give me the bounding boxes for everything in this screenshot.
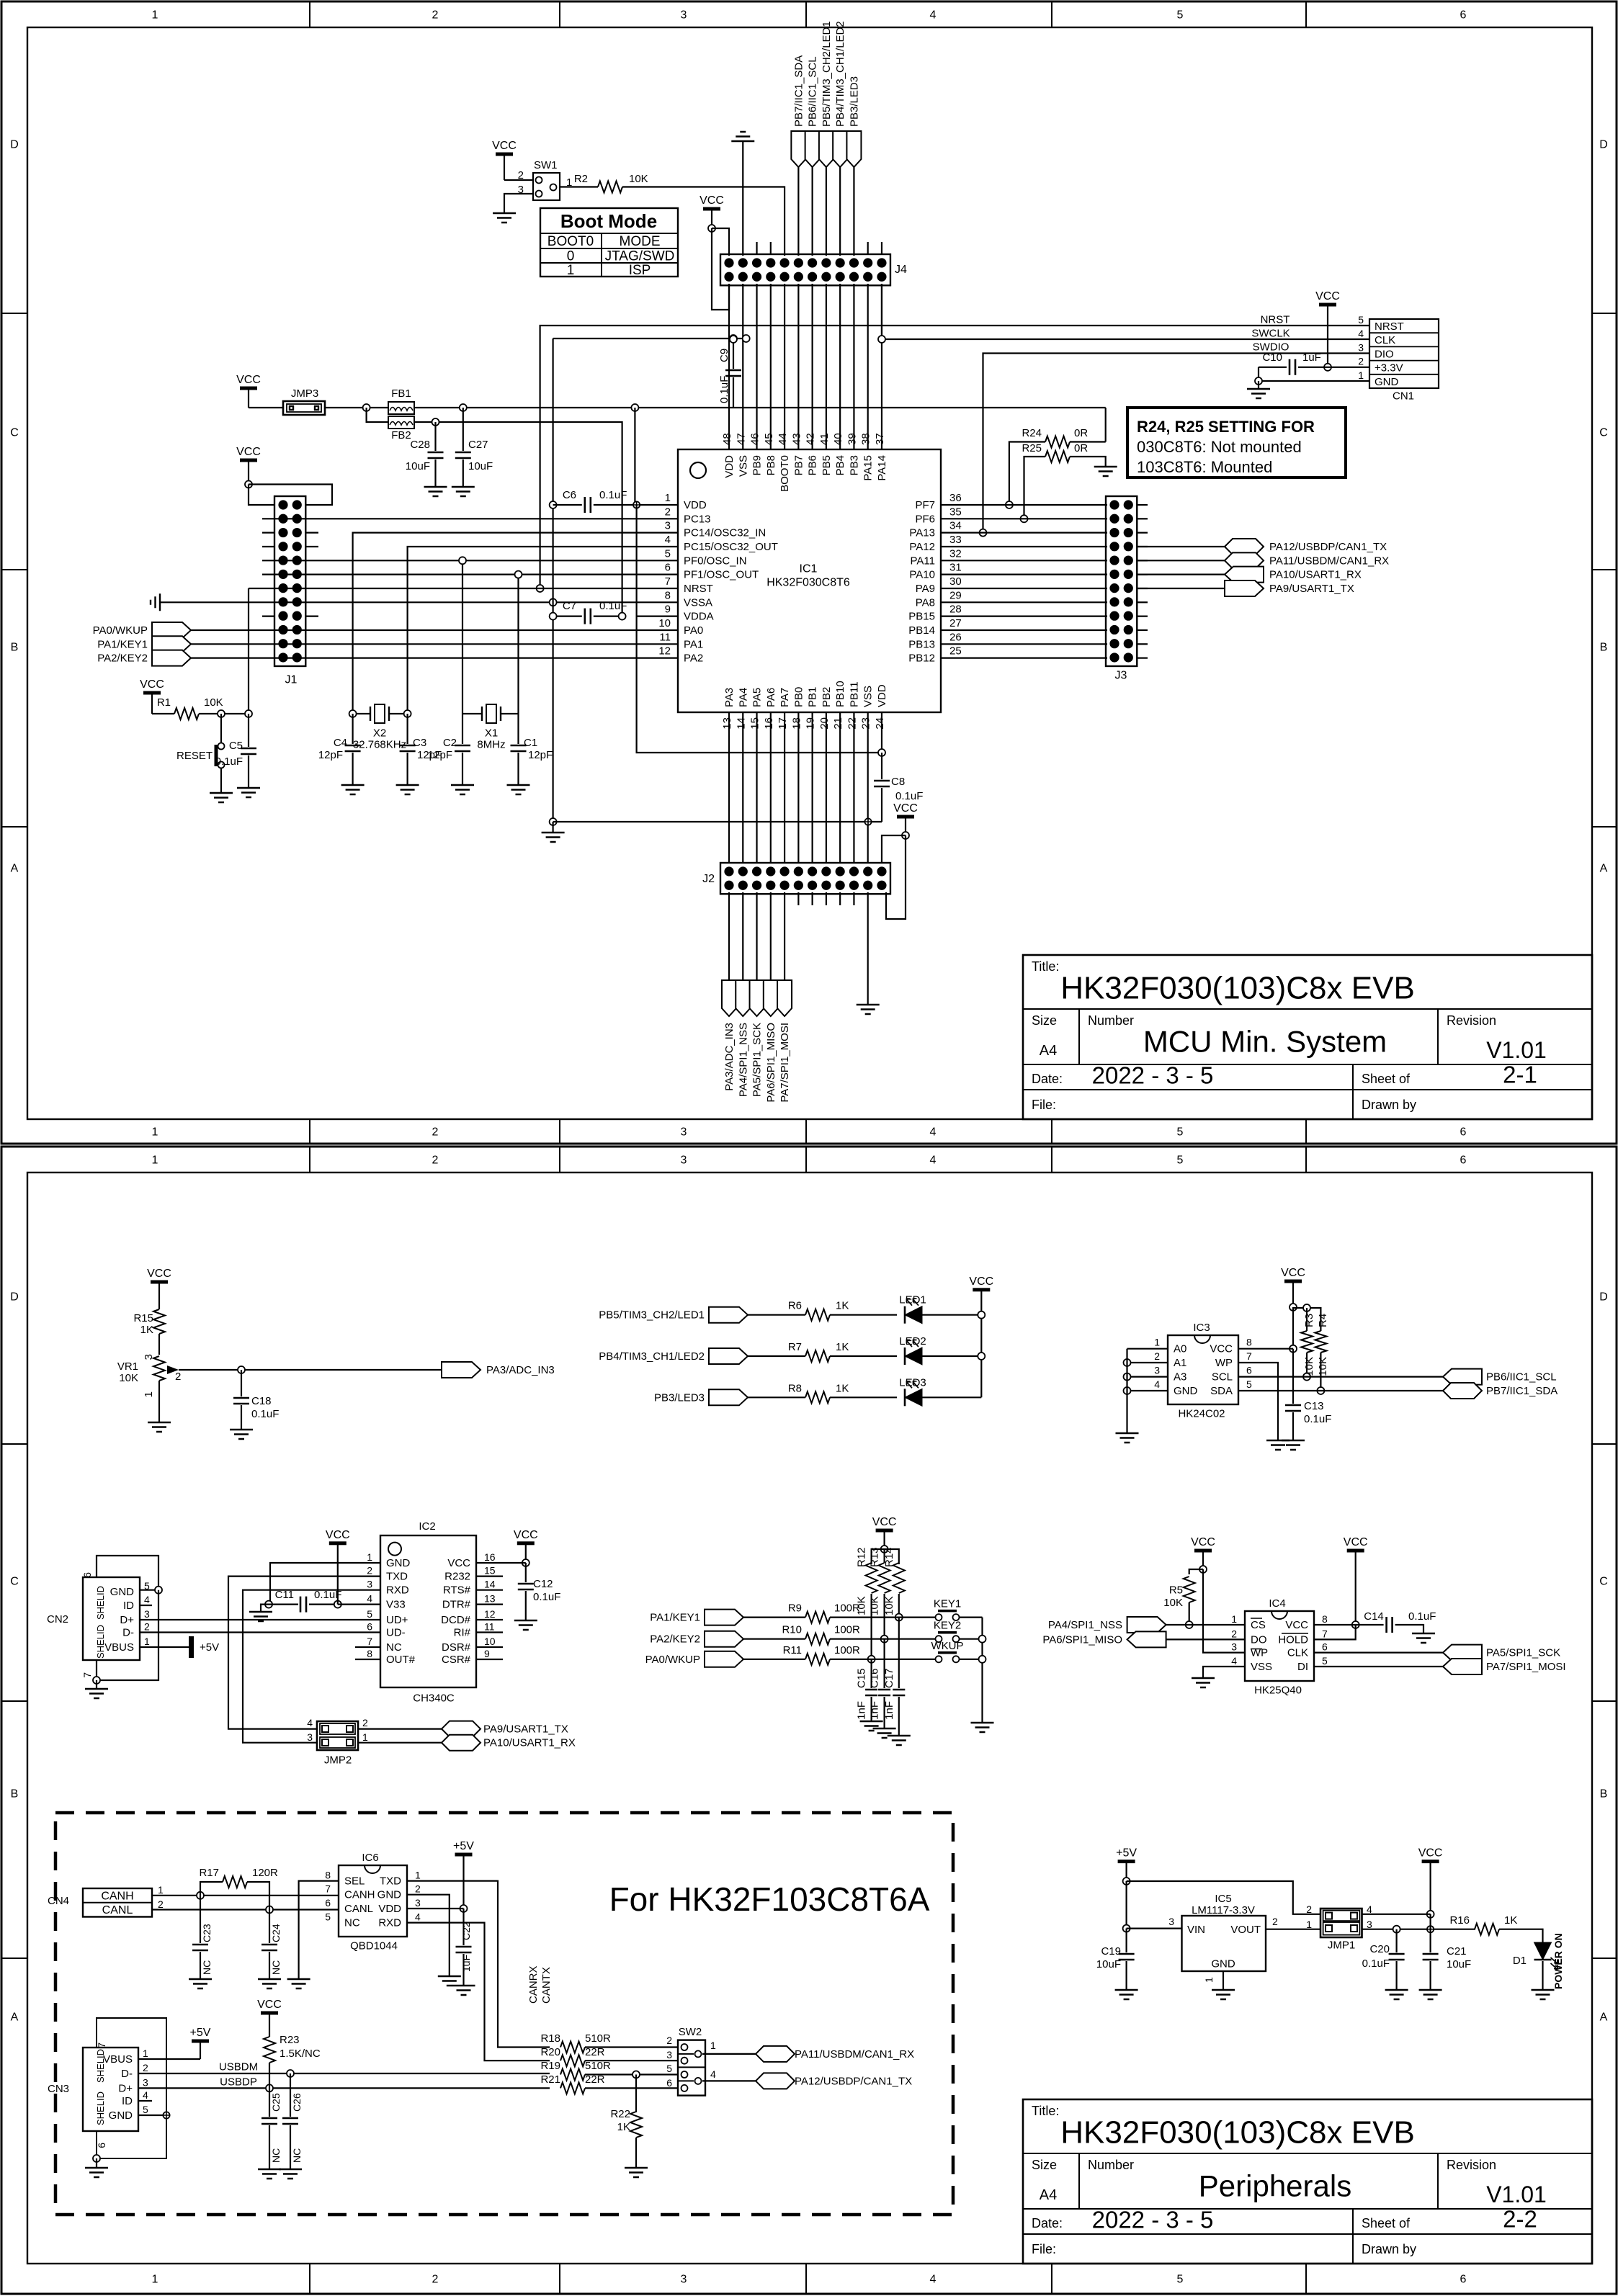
svg-text:44: 44 bbox=[777, 433, 789, 445]
svg-text:C16: C16 bbox=[869, 1668, 881, 1688]
svg-text:POWER ON: POWER ON bbox=[1552, 1933, 1564, 1989]
wire IC6 SEL to ground bbox=[299, 1881, 339, 1979]
svg-text:File:: File: bbox=[1032, 2242, 1056, 2256]
power flag VCC (IC3) bbox=[1284, 1280, 1302, 1283]
svg-text:3: 3 bbox=[1154, 1365, 1160, 1376]
wire V33 to IC2 bbox=[338, 1604, 380, 1605]
svg-text:C23: C23 bbox=[201, 1924, 213, 1942]
IC IC4 HK25Q40 bbox=[1245, 1611, 1314, 1681]
wire IC1 pin 30 to J3 bbox=[960, 588, 1107, 589]
jumper JMP2 bbox=[317, 1721, 358, 1750]
svg-text:39: 39 bbox=[846, 433, 858, 445]
power flag VCC (R15) bbox=[151, 1281, 168, 1284]
wire IC1 pin 23 to J2 bbox=[867, 712, 869, 863]
net flag PB7/IIC1_SDA bbox=[1443, 1383, 1482, 1399]
IC IC5 LM1117-3.3V bbox=[1182, 1916, 1266, 1971]
svg-text:PA11/USBDM/CAN1_RX: PA11/USBDM/CAN1_RX bbox=[795, 2048, 914, 2060]
svg-text:GND: GND bbox=[110, 1586, 135, 1598]
svg-text:R6: R6 bbox=[788, 1300, 802, 1312]
svg-text:3: 3 bbox=[143, 2076, 148, 2088]
svg-text:UD+: UD+ bbox=[386, 1614, 408, 1626]
wire VCC to VDD pin1 bbox=[634, 408, 635, 505]
wire R9 to key KEY1 bbox=[830, 1617, 939, 1618]
svg-text:3: 3 bbox=[681, 2274, 687, 2286]
svg-text:20: 20 bbox=[818, 717, 831, 730]
svg-text:1: 1 bbox=[1154, 1337, 1160, 1348]
svg-text:R22: R22 bbox=[610, 2108, 630, 2120]
svg-text:1: 1 bbox=[710, 2040, 716, 2051]
svg-text:2: 2 bbox=[175, 1371, 181, 1383]
wire IC1 pin 22 to J2 bbox=[853, 712, 854, 863]
wire PA0 to IC1 bbox=[191, 629, 636, 631]
wire IC6 RXD to R20 row (CANRX) bbox=[407, 1923, 550, 2061]
ground (C3) bbox=[396, 785, 419, 794]
svg-text:A: A bbox=[11, 863, 19, 875]
wire J2 col1 to flag bbox=[728, 892, 730, 980]
svg-text:PB11: PB11 bbox=[848, 681, 860, 707]
wire J1 row6 to PF1 bbox=[262, 574, 636, 575]
svg-text:30: 30 bbox=[949, 575, 962, 588]
resistor R20 22R bbox=[560, 2055, 585, 2066]
svg-text:IC6: IC6 bbox=[362, 1852, 378, 1864]
ferrite bead FB2 bbox=[388, 416, 414, 429]
svg-text:VCC: VCC bbox=[872, 1516, 897, 1528]
svg-text:PB0: PB0 bbox=[792, 687, 805, 707]
header J4 (2x12) bbox=[720, 254, 890, 285]
ground (IC3) bbox=[1116, 1433, 1139, 1443]
wire JMP3 to FB1 bbox=[325, 407, 388, 408]
wire USBDP net bbox=[138, 2087, 550, 2089]
svg-text:2: 2 bbox=[367, 1565, 372, 1577]
svg-text:PB7/IIC1_SDA: PB7/IIC1_SDA bbox=[792, 55, 805, 127]
svg-text:6: 6 bbox=[96, 2143, 107, 2148]
svg-text:14: 14 bbox=[735, 717, 747, 730]
wire IC4 VSS to ground bbox=[1203, 1667, 1245, 1678]
svg-text:R24, R25 SETTING FOR: R24, R25 SETTING FOR bbox=[1137, 418, 1315, 436]
power flag +5V (CN3) bbox=[192, 2040, 209, 2043]
svg-text:1K: 1K bbox=[1504, 1914, 1517, 1927]
svg-text:1: 1 bbox=[152, 2274, 158, 2286]
svg-text:7: 7 bbox=[81, 1672, 93, 1678]
IC1 pin 12 PA2 bbox=[636, 658, 678, 659]
sheet border frame bbox=[1, 1147, 1617, 2294]
svg-text:PA11: PA11 bbox=[911, 555, 935, 567]
wire IC1 pin 31 to J3 bbox=[960, 574, 1107, 575]
svg-text:C14: C14 bbox=[1364, 1610, 1384, 1623]
wire VCC to J2 col12 bottom bbox=[886, 835, 906, 919]
svg-text:2022 - 3 - 5: 2022 - 3 - 5 bbox=[1092, 1062, 1214, 1089]
svg-text:CANL: CANL bbox=[344, 1903, 373, 1915]
svg-text:PB2: PB2 bbox=[821, 687, 833, 707]
svg-text:PF6: PF6 bbox=[915, 513, 935, 525]
svg-text:A1: A1 bbox=[1174, 1357, 1186, 1369]
svg-text:26: 26 bbox=[949, 631, 962, 643]
svg-text:PA5/SPI1_SCK: PA5/SPI1_SCK bbox=[1486, 1647, 1560, 1659]
svg-text:HK32F030C8T6: HK32F030C8T6 bbox=[766, 577, 850, 589]
svg-text:VCC: VCC bbox=[236, 446, 261, 458]
capacitor C27 10uF bbox=[462, 408, 464, 451]
svg-text:VBUS: VBUS bbox=[103, 2053, 133, 2066]
svg-text:PB3/LED3: PB3/LED3 bbox=[848, 76, 860, 127]
svg-text:C12: C12 bbox=[533, 1578, 553, 1590]
IC U1 HK32F030C8T6 (IC1) bbox=[678, 449, 941, 712]
IC1 pin 11 PA1 bbox=[636, 643, 678, 645]
wire IC1 pin 33 to J3 bbox=[960, 546, 1107, 547]
wire R11 to key WKUP bbox=[830, 1659, 939, 1660]
power flag VCC (J1) bbox=[240, 459, 257, 462]
svg-text:33: 33 bbox=[949, 534, 962, 546]
svg-text:4: 4 bbox=[1358, 328, 1364, 339]
net flag PA0/WKUP bbox=[705, 1651, 743, 1667]
svg-text:3: 3 bbox=[1231, 1641, 1237, 1653]
svg-text:VCC: VCC bbox=[236, 374, 261, 386]
svg-text:C8: C8 bbox=[891, 776, 905, 788]
svg-text:Date:: Date: bbox=[1032, 1072, 1063, 1086]
svg-text:PB15: PB15 bbox=[908, 611, 935, 623]
wire +5V to VIN bbox=[1125, 1881, 1127, 1929]
svg-text:13: 13 bbox=[484, 1593, 496, 1605]
crystal X1 8MHz bbox=[462, 713, 482, 714]
svg-text:17: 17 bbox=[777, 717, 789, 730]
wire VOUT to JMP1 pin1 bbox=[1266, 1929, 1320, 1930]
svg-text:7: 7 bbox=[665, 575, 671, 588]
svg-text:6: 6 bbox=[1322, 1641, 1328, 1653]
svg-text:10K: 10K bbox=[1317, 1357, 1329, 1376]
svg-text:PA12/USBDP/CAN1_TX: PA12/USBDP/CAN1_TX bbox=[795, 2075, 912, 2087]
resistor R25 0R bbox=[1045, 451, 1070, 462]
power flag VCC (keys) bbox=[876, 1529, 893, 1533]
wire IC4 CLK to flag bbox=[1314, 1652, 1443, 1654]
wire SW1 pin3 to ground bbox=[504, 194, 533, 213]
wire J3 row2 stub right bbox=[1137, 518, 1148, 519]
svg-text:D+: D+ bbox=[118, 2082, 133, 2094]
wire NRST down to reset circuit bbox=[248, 588, 249, 714]
svg-text:HK32F030(103)C8x EVB: HK32F030(103)C8x EVB bbox=[1060, 970, 1415, 1005]
wire IC2 GND bbox=[270, 1563, 380, 1605]
svg-text:MODE: MODE bbox=[620, 234, 661, 249]
svg-text:NC: NC bbox=[270, 2148, 282, 2163]
wire CANH bbox=[152, 1895, 339, 1896]
svg-text:5: 5 bbox=[665, 547, 671, 560]
net flag PB6/IIC1_SCL bbox=[1443, 1369, 1482, 1385]
svg-text:B: B bbox=[11, 1788, 19, 1801]
resistor R6 1K bbox=[748, 1314, 805, 1316]
svg-text:8: 8 bbox=[325, 1870, 331, 1881]
IC1 pin 2 PC13 bbox=[636, 518, 678, 519]
svg-text:X1: X1 bbox=[485, 727, 498, 739]
wire IC1 pin 26 to J3 bbox=[960, 643, 1107, 645]
svg-text:PA0/WKUP: PA0/WKUP bbox=[645, 1654, 700, 1666]
svg-text:FB2: FB2 bbox=[391, 429, 411, 441]
svg-text:0.1uF: 0.1uF bbox=[895, 790, 923, 802]
wire IC2 RXD to JMP2 bbox=[243, 1590, 380, 1743]
wire SW2 common4 to flag bbox=[702, 2080, 756, 2081]
svg-text:0.1uF: 0.1uF bbox=[718, 376, 730, 403]
svg-text:PA2: PA2 bbox=[684, 653, 703, 665]
svg-text:PA12: PA12 bbox=[909, 541, 935, 553]
connector CN4 bbox=[83, 1888, 152, 1917]
wire PF1 to X1 bbox=[517, 575, 519, 714]
svg-text:PB6/IIC1_SCL: PB6/IIC1_SCL bbox=[807, 56, 819, 127]
svg-text:7: 7 bbox=[96, 2042, 107, 2048]
svg-text:SW2: SW2 bbox=[679, 2026, 702, 2038]
resistor R24 0R bbox=[1045, 436, 1070, 448]
wire D+ to UD+ bbox=[140, 1619, 380, 1620]
switch SW2 bbox=[678, 2040, 705, 2096]
wire keys to ground bbox=[981, 1618, 983, 1723]
svg-text:510R: 510R bbox=[585, 2060, 611, 2072]
svg-text:10: 10 bbox=[658, 617, 671, 629]
power flag VCC (IC4) bbox=[1347, 1549, 1364, 1553]
svg-text:3: 3 bbox=[1358, 341, 1364, 353]
svg-text:7: 7 bbox=[325, 1883, 331, 1895]
wire C10 to GND bbox=[1259, 367, 1369, 381]
net flag PA6/SPI1_MISO bbox=[764, 980, 778, 1016]
ground (CN3) bbox=[93, 2155, 100, 2162]
ground (C20) bbox=[1385, 1990, 1408, 1999]
svg-text:R4: R4 bbox=[1317, 1314, 1329, 1327]
svg-text:Title:: Title: bbox=[1032, 2104, 1059, 2118]
svg-text:CN2: CN2 bbox=[47, 1613, 68, 1625]
svg-text:D: D bbox=[1599, 1291, 1608, 1304]
svg-text:VCC: VCC bbox=[1281, 1267, 1305, 1279]
svg-text:120R: 120R bbox=[252, 1867, 278, 1879]
svg-text:C10: C10 bbox=[1262, 351, 1282, 364]
IC1 pin 9 VDDA bbox=[636, 616, 678, 617]
net flag PA10/USART1_RX bbox=[442, 1735, 481, 1751]
title block bbox=[1023, 955, 1592, 1119]
svg-text:10: 10 bbox=[484, 1636, 496, 1647]
wire flag to J4 bbox=[853, 167, 854, 256]
net flag PB4/TIM3_CH1/LED2 bbox=[709, 1348, 748, 1364]
svg-text:A4: A4 bbox=[1040, 1043, 1057, 1059]
svg-text:Peripherals: Peripherals bbox=[1199, 2169, 1351, 2203]
capacitor C8 0.1uF bbox=[881, 753, 882, 779]
wire VCC to J4 pin1 bbox=[708, 225, 715, 232]
svg-text:VSSA: VSSA bbox=[684, 596, 712, 609]
svg-text:43: 43 bbox=[790, 433, 803, 445]
svg-text:1: 1 bbox=[152, 9, 158, 22]
svg-text:8: 8 bbox=[1246, 1337, 1252, 1348]
wire PC15 to X2 bbox=[408, 547, 636, 714]
svg-text:Drawn by: Drawn by bbox=[1362, 1098, 1416, 1112]
svg-text:VBUS: VBUS bbox=[104, 1641, 134, 1654]
svg-text:7: 7 bbox=[367, 1636, 372, 1647]
svg-text:VCC: VCC bbox=[1210, 1343, 1233, 1355]
net flag PB3/LED3 bbox=[709, 1389, 748, 1405]
resistor R1 10K bbox=[152, 713, 174, 714]
svg-text:1: 1 bbox=[567, 263, 575, 278]
svg-text:R5: R5 bbox=[1169, 1584, 1183, 1597]
svg-text:21: 21 bbox=[832, 717, 844, 730]
svg-text:CSR#: CSR# bbox=[442, 1654, 471, 1666]
svg-text:2: 2 bbox=[143, 2062, 148, 2073]
wire IC2 right pin 14 stub bbox=[476, 1589, 503, 1591]
power flag VCC (J2) bbox=[897, 815, 914, 819]
resistor R15 1K bbox=[153, 1309, 165, 1334]
svg-text:FB1: FB1 bbox=[391, 387, 411, 400]
wire J4 col1 to IC1 pin 48 bbox=[728, 284, 730, 449]
svg-text:46: 46 bbox=[749, 433, 761, 445]
svg-text:28: 28 bbox=[949, 604, 962, 616]
svg-text:J4: J4 bbox=[895, 264, 907, 276]
svg-text:5: 5 bbox=[367, 1608, 372, 1620]
svg-text:2: 2 bbox=[432, 1126, 439, 1139]
IC1 pin 10 PA0 bbox=[636, 629, 678, 631]
wire IC1 pin 16 to J2 bbox=[770, 712, 772, 863]
wire CN3 GND pin5 to shell bbox=[138, 2115, 166, 2116]
svg-text:10uF: 10uF bbox=[1096, 1958, 1121, 1970]
svg-text:2: 2 bbox=[158, 1898, 164, 1910]
svg-text:5: 5 bbox=[325, 1911, 331, 1923]
svg-text:0: 0 bbox=[567, 249, 575, 264]
IC1 pin 32 PA11 bbox=[941, 560, 960, 561]
wire VCC to J2 col12 top bbox=[882, 835, 906, 863]
svg-text:5: 5 bbox=[143, 2104, 148, 2115]
svg-text:1K: 1K bbox=[617, 2121, 630, 2133]
svg-text:PA7/SPI1_MOSI: PA7/SPI1_MOSI bbox=[1486, 1661, 1566, 1673]
ground (CN1) bbox=[1258, 381, 1259, 389]
svg-text:9: 9 bbox=[484, 1648, 490, 1659]
svg-text:+5V: +5V bbox=[1116, 1847, 1137, 1860]
ground (C27) bbox=[452, 487, 475, 496]
wire IC6 VDD bbox=[407, 1908, 464, 1909]
wire J2 col9 stub below bbox=[839, 892, 841, 905]
wire IC2 right pin 9 stub bbox=[476, 1659, 503, 1660]
wire J4 col2 to IC1 pin 47 bbox=[742, 284, 743, 449]
svg-text:6: 6 bbox=[325, 1897, 331, 1909]
switch KEY1 bbox=[936, 1614, 942, 1620]
svg-text:5: 5 bbox=[1177, 9, 1184, 22]
svg-text:3: 3 bbox=[143, 1354, 155, 1360]
svg-text:TXD: TXD bbox=[386, 1571, 408, 1583]
svg-text:0.1uF: 0.1uF bbox=[1362, 1958, 1390, 1970]
svg-text:D1: D1 bbox=[1513, 1955, 1527, 1967]
wire NRST net bbox=[540, 326, 1369, 588]
svg-text:22: 22 bbox=[846, 717, 858, 730]
net flag PA12/USBDP/CAN1_TX bbox=[1137, 546, 1225, 547]
svg-text:CN3: CN3 bbox=[48, 2083, 69, 2095]
svg-text:VSS: VSS bbox=[737, 455, 749, 477]
svg-text:CANL: CANL bbox=[102, 1904, 133, 1916]
wire IC1 pin 21 to J2 bbox=[839, 712, 841, 863]
svg-text:2-1: 2-1 bbox=[1503, 1062, 1537, 1088]
capacitor C11 0.1uF bbox=[265, 1601, 272, 1608]
svg-text:C25: C25 bbox=[270, 2093, 282, 2112]
svg-text:PC13: PC13 bbox=[684, 513, 711, 525]
svg-text:2: 2 bbox=[1272, 1916, 1278, 1927]
svg-text:38: 38 bbox=[860, 433, 872, 445]
wire IC1 pin 19 to J2 bbox=[812, 712, 813, 863]
svg-text:23: 23 bbox=[860, 717, 872, 730]
svg-text:PB6: PB6 bbox=[807, 455, 819, 475]
net flag PB7/IIC1_SDA bbox=[791, 131, 805, 167]
svg-text:PB1: PB1 bbox=[807, 687, 819, 707]
IC1 pin 5 PF0/OSC_IN bbox=[636, 560, 678, 561]
wire PA2 to IC1 bbox=[191, 658, 636, 659]
svg-text:2022 - 3 - 5: 2022 - 3 - 5 bbox=[1092, 2207, 1214, 2233]
capacitor C20 0.1uF bbox=[1395, 1929, 1397, 1952]
IC1 pin 8 VSSA bbox=[636, 601, 678, 603]
svg-text:PB3/LED3: PB3/LED3 bbox=[654, 1391, 705, 1404]
resistor R14 10K bbox=[893, 1563, 905, 1593]
svg-text:13: 13 bbox=[721, 717, 733, 730]
wire IC3 WP to ground bbox=[1238, 1363, 1278, 1440]
resistor R7 1K bbox=[748, 1355, 805, 1357]
svg-text:2-2: 2-2 bbox=[1503, 2206, 1537, 2233]
svg-text:PA0/WKUP: PA0/WKUP bbox=[93, 624, 148, 637]
svg-text:1: 1 bbox=[152, 1154, 158, 1167]
svg-text:JTAG/SWD: JTAG/SWD bbox=[605, 249, 675, 264]
IC1 pin 7 NRST bbox=[636, 588, 678, 589]
svg-text:A: A bbox=[1600, 2012, 1608, 2024]
ground (CN2) bbox=[96, 1680, 97, 1689]
net flag PB3/LED3 bbox=[846, 131, 861, 167]
IC1 pin 36 PF7 bbox=[941, 504, 960, 506]
capacitor C23 NC bbox=[200, 1896, 201, 1943]
svg-text:C: C bbox=[1599, 1576, 1608, 1588]
wire VBUS bbox=[138, 2058, 200, 2060]
svg-text:CN1: CN1 bbox=[1393, 390, 1414, 402]
svg-text:R23: R23 bbox=[280, 2034, 300, 2046]
svg-text:41: 41 bbox=[818, 433, 831, 445]
svg-text:Sheet of: Sheet of bbox=[1362, 1072, 1411, 1086]
svg-text:Size: Size bbox=[1032, 2158, 1057, 2172]
svg-text:VCC: VCC bbox=[893, 802, 918, 815]
svg-text:1: 1 bbox=[1203, 1977, 1215, 1983]
svg-text:For HK32F103C8T6A: For HK32F103C8T6A bbox=[609, 1880, 930, 1918]
svg-text:RESET: RESET bbox=[176, 750, 213, 762]
power flag +5V (IC5) bbox=[1118, 1860, 1135, 1863]
wire JMP1 pin3 to VCC bbox=[1362, 1929, 1476, 1930]
svg-text:C17: C17 bbox=[883, 1668, 895, 1688]
ground (C24) bbox=[258, 1979, 281, 1988]
LED D1 POWER ON bbox=[1534, 1959, 1552, 1961]
svg-text:1: 1 bbox=[144, 1636, 150, 1647]
svg-text:PA4/SPI1_NSS: PA4/SPI1_NSS bbox=[1048, 1619, 1122, 1631]
svg-text:R1: R1 bbox=[157, 696, 171, 709]
svg-text:1: 1 bbox=[1231, 1613, 1237, 1625]
svg-text:File:: File: bbox=[1032, 1098, 1056, 1112]
svg-text:C15: C15 bbox=[856, 1668, 868, 1688]
wire IC2 right pin 11 stub bbox=[476, 1631, 503, 1633]
wire GND rail from J4 bbox=[553, 338, 746, 339]
svg-text:C24: C24 bbox=[270, 1924, 282, 1942]
svg-text:PA2/KEY2: PA2/KEY2 bbox=[650, 1633, 700, 1646]
LED LED1 bbox=[830, 1314, 897, 1316]
svg-text:B: B bbox=[1600, 642, 1608, 654]
power flag VCC (SW1) bbox=[496, 153, 513, 156]
svg-text:PA13: PA13 bbox=[909, 527, 935, 539]
svg-text:1nF: 1nF bbox=[883, 1701, 895, 1720]
svg-text:12: 12 bbox=[658, 645, 671, 658]
wire J4 col6 to IC1 pin 43 bbox=[797, 284, 799, 449]
wire IC2 VCC pin16 bbox=[476, 1562, 526, 1564]
ground (C12) bbox=[514, 1620, 537, 1630]
svg-text:6: 6 bbox=[81, 1572, 93, 1578]
net flag PA5/SPI1_SCK bbox=[750, 980, 764, 1016]
svg-text:NRST: NRST bbox=[1261, 313, 1290, 326]
IC1 pin 35 PF6 bbox=[941, 518, 960, 519]
svg-text:WKUP: WKUP bbox=[931, 1640, 964, 1652]
wire IC1 pin 24 VDD stub bbox=[881, 712, 882, 753]
svg-text:VDD: VDD bbox=[723, 455, 736, 478]
wire CN2 ID stub bbox=[140, 1605, 152, 1606]
svg-text:510R: 510R bbox=[585, 2032, 611, 2045]
wire VCC to IC3 pin8 bbox=[1292, 1307, 1294, 1349]
svg-text:9: 9 bbox=[665, 604, 671, 616]
ground (SW1) bbox=[493, 213, 516, 223]
